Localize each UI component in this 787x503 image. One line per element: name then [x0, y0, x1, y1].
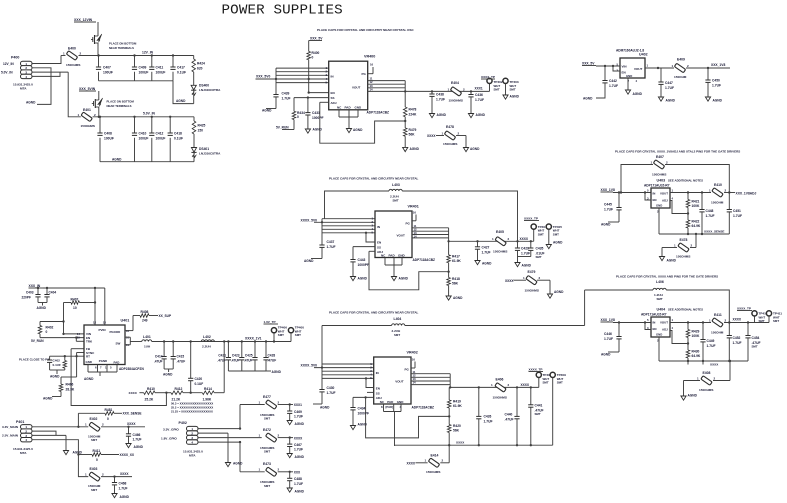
resistor R422 — [686, 214, 701, 235]
svg-text:E472: E472 — [263, 428, 271, 432]
svg-text:L402: L402 — [203, 335, 211, 339]
capacitor C445 — [604, 193, 622, 223]
svg-text:AGND: AGND — [522, 264, 532, 268]
svg-text:SMT: SMT — [557, 381, 563, 385]
svg-text:5V_RUN: 5V_RUN — [31, 339, 44, 343]
ground P402 — [225, 462, 243, 467]
svg-text:E479: E479 — [528, 270, 536, 274]
pin numbers VR401 right — [414, 224, 418, 238]
svg-text:E411: E411 — [714, 313, 722, 317]
svg-text:C434: C434 — [358, 407, 366, 411]
svg-text:XXXX: XXXX — [733, 318, 742, 322]
net AGND C442 — [583, 97, 593, 101]
svg-text:61.9K: 61.9K — [453, 404, 462, 408]
svg-text:1.8V_GPIO: 1.8V_GPIO — [161, 437, 177, 441]
net sense U404 — [710, 363, 719, 367]
svg-text:XXX: XXX — [294, 471, 301, 475]
svg-text:LNJ316C8TRA: LNJ316C8TRA — [199, 88, 221, 92]
resistor R414 — [202, 387, 214, 402]
svg-text:AGND: AGND — [313, 128, 323, 132]
testpoint TP404 — [531, 224, 547, 241]
svg-text:VOUT: VOUT — [395, 380, 404, 384]
op-amp U401 box — [84, 325, 125, 365]
label U403 — [657, 179, 704, 183]
net VDD_1V8 in2 label — [601, 318, 615, 322]
svg-text:RT: RT — [86, 355, 90, 359]
svg-text:E478: E478 — [446, 125, 454, 129]
net AGND C445 — [601, 223, 611, 227]
wire 1V8ADJ out — [724, 191, 735, 193]
net XXX_5V0 left — [256, 75, 270, 79]
wire VR400 input bundle — [256, 68, 329, 94]
svg-text:SMT: SMT — [394, 333, 400, 337]
svg-text:R406: R406 — [66, 383, 74, 387]
wire row1 gnd drop — [173, 81, 194, 104]
svg-text:SMT: SMT — [773, 319, 779, 323]
wire row2 ground rail — [100, 161, 194, 163]
net 12VIN label — [74, 18, 96, 22]
svg-text:C414: C414 — [155, 355, 163, 359]
ground P401 — [63, 451, 82, 455]
capacitor C452 — [727, 323, 742, 362]
capacitor C446 — [604, 323, 622, 353]
svg-text:150OHMS: 150OHMS — [426, 470, 440, 474]
ferrite E473 — [259, 462, 280, 488]
svg-text:SMT: SMT — [752, 345, 758, 349]
svg-text:C423: C423 — [232, 354, 240, 358]
connector P401 — [2, 420, 33, 455]
svg-text:100UF: 100UF — [139, 137, 149, 141]
svg-text:C440: C440 — [505, 413, 513, 417]
svg-text:SMT: SMT — [538, 232, 544, 236]
svg-text:1.0V_TP: 1.0V_TP — [264, 320, 276, 324]
svg-text:AGND: AGND — [713, 99, 723, 103]
svg-text:C425: C425 — [245, 354, 253, 358]
svg-text:0.1UF: 0.1UF — [174, 137, 183, 141]
svg-text:P401: P401 — [16, 420, 24, 424]
ground E478b — [659, 257, 676, 263]
svg-text:220PF: 220PF — [22, 296, 31, 300]
pin labels VR401 — [377, 222, 411, 258]
pin numbers VR402 right — [413, 370, 417, 385]
ferrite E409 — [672, 58, 690, 80]
svg-text:IN: IN — [653, 321, 656, 325]
svg-text:56K: 56K — [452, 282, 459, 286]
svg-text:1.7UF: 1.7UF — [482, 250, 491, 254]
capacitor C468 — [112, 477, 128, 494]
svg-text:1.7UF: 1.7UF — [665, 86, 674, 90]
svg-text:PLACE CAPS FOR CRYSTAL AND CIR: PLACE CAPS FOR CRYSTAL AND CIRCUITRY NEA… — [329, 311, 419, 315]
svg-text:AGND: AGND — [353, 128, 363, 132]
label U402 partname — [616, 49, 648, 57]
svg-text:LNJ316C8TRA: LNJ316C8TRA — [199, 152, 221, 156]
svg-text:AGND: AGND — [37, 306, 47, 310]
svg-text:C451: C451 — [733, 209, 741, 213]
note place on bottom row2 — [107, 100, 135, 108]
svg-text:150OHMS: 150OHMS — [493, 395, 507, 399]
net AGND C403 — [37, 306, 47, 310]
wire U404 vout — [670, 321, 711, 323]
svg-text:R420: R420 — [453, 424, 461, 428]
net E403 out label — [120, 472, 129, 476]
svg-text:1.7UF: 1.7UF — [282, 97, 291, 101]
svg-text:SMT: SMT — [278, 333, 284, 337]
svg-text:1.7UF: 1.7UF — [119, 486, 128, 490]
wire P401 pin4 — [32, 440, 88, 477]
wire ADJ staircase VR402 — [364, 396, 449, 438]
label U404 partname — [641, 313, 667, 317]
svg-text:AGND: AGND — [176, 99, 186, 103]
svg-text:SMT: SMT — [264, 450, 270, 454]
svg-text:C469: C469 — [294, 410, 302, 414]
note VR401 — [329, 177, 419, 181]
resistor R478 — [403, 91, 417, 128]
svg-text:L404: L404 — [394, 317, 402, 321]
svg-text:XXX1: XXX1 — [294, 403, 302, 407]
svg-text:PLACE CAPS FOR CRYSTAL AND CIR: PLACE CAPS FOR CRYSTAL AND CIRCUITRY NEA… — [329, 177, 419, 181]
svg-text:VOUT: VOUT — [660, 192, 668, 196]
capacitor C440 — [505, 387, 520, 445]
capacitor C411 — [149, 54, 165, 81]
svg-text:XXX_5V: XXX_5V — [582, 62, 595, 66]
svg-text:100K: 100K — [692, 334, 701, 338]
svg-text:PLACE CAPS FOR CRYSTAL AND CIR: PLACE CAPS FOR CRYSTAL AND CIRCUITRY NEA… — [317, 28, 414, 32]
ground C469 — [287, 421, 304, 427]
net row1 label — [294, 403, 302, 407]
pin numbers VR400 right — [370, 77, 374, 92]
testpoint TP403 — [503, 78, 519, 95]
wire E407 loop left — [620, 165, 653, 194]
wire row1 feed — [240, 404, 265, 406]
svg-text:AGND: AGND — [399, 277, 409, 281]
svg-text:AGND: AGND — [583, 97, 593, 101]
wire U404 bottom rail — [659, 337, 748, 362]
svg-text:R430: R430 — [692, 350, 700, 354]
svg-text:C429: C429 — [521, 247, 529, 251]
svg-text:XXX_1V8: XXX_1V8 — [601, 318, 615, 322]
label VR401 — [408, 205, 419, 209]
svg-text:XXXX_5V0: XXXX_5V0 — [301, 364, 318, 368]
svg-text:150OHM: 150OHM — [711, 201, 724, 205]
wire — [97, 46, 99, 57]
svg-text:U401: U401 — [121, 319, 130, 323]
svg-text:0.1UF: 0.1UF — [195, 382, 204, 386]
op-amp U VR400 box — [329, 61, 368, 110]
svg-text:1.7UF: 1.7UF — [733, 341, 742, 345]
svg-text:C441: C441 — [535, 404, 543, 408]
svg-text:R478: R478 — [409, 108, 417, 112]
ground E478 — [463, 147, 480, 152]
svg-text:AGND: AGND — [476, 113, 486, 117]
svg-text:E406: E406 — [496, 378, 504, 382]
wire U403 input rail — [613, 191, 651, 193]
pin numbers VR402 bottom — [381, 405, 402, 409]
svg-text:21.25 = XXXXXXXXXXXXXXXXX: 21.25 = XXXXXXXXXXXXXXXXX — [171, 410, 213, 414]
wire U404 out rail — [724, 321, 769, 323]
wire L403 loop left — [325, 191, 390, 219]
svg-text:E400: E400 — [68, 47, 76, 51]
ferrite E402 — [85, 417, 104, 442]
wire VOUT bundle VR402 — [411, 374, 450, 385]
svg-text:C467: C467 — [294, 443, 302, 447]
svg-text:56K: 56K — [409, 133, 416, 137]
svg-text:R429: R429 — [692, 330, 700, 334]
svg-text:XXX_5V: XXX_5V — [310, 37, 323, 41]
svg-text:SMT: SMT — [295, 333, 301, 337]
svg-text:5V_RUN: 5V_RUN — [276, 126, 289, 130]
capacitor C454 — [745, 323, 760, 362]
svg-text:EN: EN — [653, 198, 657, 202]
svg-text:C450: C450 — [712, 79, 720, 83]
svg-text:SMT: SMT — [91, 438, 97, 442]
svg-text:PG: PG — [405, 368, 410, 372]
svg-text:R419: R419 — [453, 400, 461, 404]
svg-text:AGND: AGND — [43, 397, 53, 401]
wire EN stub — [309, 92, 329, 94]
net 12V_IN rail label — [142, 51, 154, 55]
net AGND C414 — [163, 373, 173, 377]
svg-text:1.7UF: 1.7UF — [609, 84, 618, 88]
svg-text:AGND: AGND — [163, 373, 173, 377]
svg-text:1.7UF: 1.7UF — [521, 251, 530, 255]
svg-text:AGND: AGND — [666, 99, 676, 103]
note VR400 — [317, 28, 414, 32]
resistor R430 — [686, 344, 701, 365]
wire sense rail U403 — [659, 208, 729, 235]
wire EN stub U401 — [40, 336, 84, 338]
capacitor C403 — [26, 288, 41, 303]
svg-text:C418: C418 — [174, 132, 182, 136]
resistor R410 — [144, 387, 155, 402]
svg-text:AGND: AGND — [667, 259, 677, 263]
capacitor C414 — [154, 342, 167, 370]
svg-text:GND: GND — [398, 253, 406, 257]
svg-text:C415: C415 — [177, 355, 185, 359]
ground C447 — [658, 97, 675, 103]
svg-text:C449: C449 — [707, 339, 715, 343]
svg-text:R414: R414 — [204, 387, 212, 391]
svg-text:PGOOD: PGOOD — [110, 330, 121, 334]
ground VR400 — [346, 128, 363, 133]
svg-text:SS: SS — [331, 96, 335, 100]
svg-text:E477: E477 — [263, 395, 271, 399]
label ADP7118 VR400 — [367, 111, 390, 115]
op-amp U403 box — [651, 188, 670, 208]
svg-text:E473: E473 — [263, 462, 271, 466]
ground C436 — [468, 113, 485, 118]
wire PG stub — [368, 63, 374, 74]
svg-text:XXX_1V8ADJ: XXX_1V8ADJ — [736, 192, 757, 196]
svg-text:SS: SS — [377, 245, 381, 249]
capacitor C433 — [305, 96, 323, 129]
svg-text:64.9K: 64.9K — [692, 224, 701, 228]
svg-text:U402: U402 — [639, 53, 648, 57]
wire U401 gnd pins — [88, 365, 117, 377]
svg-text:L406: L406 — [656, 280, 664, 284]
svg-text:620: 620 — [197, 67, 203, 71]
led DS400 — [191, 72, 221, 104]
net 5VIN label — [79, 87, 96, 91]
svg-text:.47UF: .47UF — [177, 359, 186, 363]
svg-text:1.7UF: 1.7UF — [475, 98, 484, 102]
svg-text:C409: C409 — [139, 66, 147, 70]
net E402 out label — [127, 422, 136, 426]
svg-text:AGND: AGND — [233, 462, 243, 466]
wire SYNC RT stubs — [50, 353, 84, 358]
svg-text:R481: R481 — [105, 408, 113, 412]
wire VR402 gnd pins — [384, 404, 402, 412]
svg-text:SMT: SMT — [553, 232, 559, 236]
svg-text:R408: R408 — [141, 310, 149, 314]
wire EN junction VR401 — [365, 232, 375, 242]
svg-text:R412: R412 — [175, 387, 183, 391]
pin numbers U404 — [647, 318, 674, 343]
svg-text:150OHMS: 150OHMS — [81, 124, 95, 128]
testpoint TP408 — [536, 372, 552, 387]
net AGND caps — [272, 370, 282, 374]
svg-text:XXX_5VIN: XXX_5VIN — [79, 87, 96, 91]
svg-text:AGND: AGND — [470, 147, 480, 151]
svg-text:ADP7118ACBZ: ADP7118ACBZ — [367, 111, 390, 115]
wire EN tie U404 — [645, 323, 651, 330]
capacitor C438 — [429, 90, 445, 113]
svg-text:XXXX: XXXX — [427, 134, 436, 138]
wire P400 pin2 to AGND — [32, 68, 51, 105]
capacitor C447 — [658, 68, 674, 97]
svg-text:SMT: SMT — [510, 87, 516, 91]
net 5.0V_IN rail label — [143, 112, 156, 116]
svg-text:PAD: PAD — [389, 253, 396, 257]
op-amp VR401 box — [375, 211, 412, 258]
wire L403 loop right — [402, 191, 517, 241]
svg-text:XXXX_TP: XXXX_TP — [481, 75, 495, 79]
svg-text:L401: L401 — [143, 335, 151, 339]
wire R400 to EN — [308, 60, 310, 94]
svg-text:150OHM: 150OHM — [674, 75, 687, 79]
pin numbers VR402 left — [370, 362, 372, 380]
connector P402 — [161, 421, 203, 458]
svg-text:150OHMS: 150OHMS — [66, 63, 80, 67]
net VDD_1V8 label — [711, 63, 725, 67]
svg-text:16: 16 — [412, 358, 416, 362]
note divider values — [171, 402, 213, 414]
net AGND row1 — [176, 99, 186, 103]
svg-text:XXX_1V8: XXX_1V8 — [601, 188, 615, 192]
ferrite E410 — [709, 183, 727, 205]
svg-text:AGND: AGND — [120, 495, 130, 499]
net AGND C430 — [320, 406, 330, 410]
svg-text:NEAR TERMINALS: NEAR TERMINALS — [109, 46, 134, 50]
capacitor C426 — [476, 387, 492, 445]
svg-text:AGND: AGND — [482, 262, 492, 266]
svg-text:12: 12 — [93, 321, 97, 325]
svg-text:E401: E401 — [83, 108, 91, 112]
svg-text:SMT: SMT — [657, 297, 663, 301]
wire VIN stub — [62, 303, 84, 336]
ferrite E478b — [662, 234, 696, 259]
net 5V_RUN U401 — [31, 339, 44, 343]
ground C433 — [305, 128, 322, 134]
net XXX_SENSE label — [123, 412, 142, 416]
svg-text:5.0V_IN: 5.0V_IN — [1, 71, 13, 75]
wire P402 pin4 — [198, 427, 241, 471]
svg-text:POWER SUPPLIES: POWER SUPPLIES — [222, 3, 343, 19]
svg-text:0: 0 — [46, 330, 48, 334]
ground E479 — [547, 290, 564, 298]
svg-text:SMT: SMT — [264, 417, 270, 421]
svg-text:GND: GND — [656, 204, 662, 208]
wire E478b gnd — [661, 248, 663, 257]
svg-text:14: 14 — [414, 234, 418, 238]
svg-text:PAD: PAD — [114, 360, 120, 364]
wire VR402 bottom rail — [395, 444, 553, 446]
inductor L402 — [201, 335, 214, 349]
svg-text:150OHMS: 150OHMS — [699, 388, 713, 392]
wire 1V8 rail — [686, 67, 730, 69]
net 5V0_TP label — [481, 75, 495, 79]
svg-text:1.7UF: 1.7UF — [604, 337, 613, 341]
svg-text:ADP171AUJZ-R7: ADP171AUJZ-R7 — [644, 184, 670, 188]
svg-text:C426: C426 — [484, 415, 492, 419]
svg-text:PLACE CAPS FOR CRYSTAL XXXX_1V: PLACE CAPS FOR CRYSTAL XXXX_1V8ADJ AND X… — [615, 150, 740, 154]
wire FB stub — [71, 348, 84, 350]
svg-text:GND: GND — [397, 400, 405, 404]
svg-text:2.5V_MAIN: 2.5V_MAIN — [2, 434, 19, 438]
svg-text:XXX_SENSE: XXX_SENSE — [123, 412, 142, 416]
wire SW stubs — [125, 337, 142, 345]
svg-text:.47UF: .47UF — [154, 359, 163, 363]
net XX_SUP label — [159, 314, 172, 318]
svg-text:SMT: SMT — [393, 199, 399, 203]
capacitor C469 — [287, 405, 303, 421]
svg-text:VOUT: VOUT — [352, 86, 361, 90]
wire E403 out — [101, 475, 132, 477]
capacitor C402 — [47, 356, 61, 370]
ground U402 — [625, 90, 642, 96]
svg-text:R421: R421 — [692, 200, 700, 204]
svg-text:C466: C466 — [133, 433, 141, 437]
capacitor C409 — [132, 54, 149, 81]
testpoint TP400 — [288, 326, 304, 342]
net AGND R406 — [43, 397, 53, 401]
wire — [98, 91, 100, 97]
pin numbers VR401 left — [372, 217, 374, 235]
wire P402 pin1 — [198, 405, 240, 429]
svg-text:SMT: SMT — [264, 484, 270, 488]
svg-text:AGND: AGND — [688, 394, 698, 398]
svg-text:C427: C427 — [482, 246, 490, 250]
pin numbers VR400 left — [326, 66, 328, 85]
wire 5V rail2 — [93, 116, 194, 118]
svg-text:XXXX: XXXX — [407, 462, 416, 466]
svg-text:VOUT: VOUT — [634, 67, 643, 71]
net VDD_IN label — [29, 284, 44, 288]
capacitor C428 — [263, 342, 276, 372]
ferrite E478 — [427, 125, 466, 146]
ground C434 — [350, 423, 367, 430]
svg-text:XXXX: XXXX — [520, 237, 529, 241]
svg-text:SMT: SMT — [536, 255, 542, 259]
svg-text:224K: 224K — [409, 112, 418, 116]
resistor R405 — [63, 356, 67, 370]
net AGND C439 — [262, 109, 272, 113]
capacitor C420 — [188, 342, 203, 393]
wire C403 C404 gnd — [38, 303, 47, 306]
resistor R412 — [171, 387, 183, 402]
svg-text:0: 0 — [107, 417, 109, 421]
net 5V0 out label — [475, 87, 483, 91]
inductor L404 — [392, 317, 405, 337]
